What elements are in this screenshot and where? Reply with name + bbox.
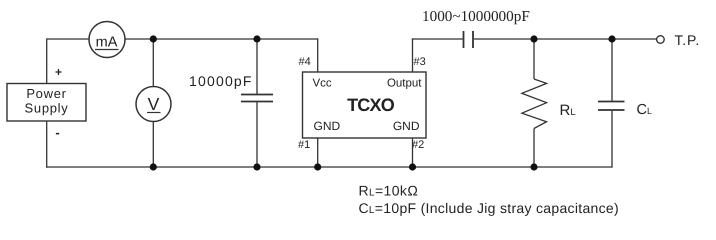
- junction dot top at CL: [608, 35, 615, 42]
- note RL value: [359, 183, 419, 199]
- voltmeter V: [136, 87, 171, 122]
- wire left vertical from top rail to power supply +: [46, 38, 48, 83]
- minus terminal label: [55, 125, 59, 140]
- pin label Output: [387, 78, 422, 90]
- wire top from power supply to ammeter: [47, 38, 89, 40]
- svg-text:Power: Power: [26, 86, 66, 101]
- svg-text:Vcc: Vcc: [313, 78, 332, 90]
- plus terminal label: [55, 65, 62, 79]
- pin number #1: [298, 139, 310, 151]
- wire TCXO pin 2: [412, 138, 414, 167]
- wire CL bottom: [611, 110, 613, 168]
- pin label GND left: [314, 119, 341, 133]
- wire RL top: [533, 39, 535, 79]
- wire voltmeter bottom: [152, 122, 154, 168]
- junction dot bottom at voltmeter: [150, 163, 157, 170]
- wire RL bottom: [533, 129, 535, 168]
- wire capacitor 10000pF bottom: [256, 102, 258, 168]
- svg-text:CL=10pF (Include Jig stray cap: CL=10pF (Include Jig stray capacitance): [359, 200, 619, 216]
- svg-text:V: V: [148, 94, 160, 114]
- wire pin3 to series capacitor: [412, 38, 463, 40]
- power supply box: [7, 84, 86, 122]
- wire series capacitor to test point: [474, 38, 657, 40]
- svg-text:#4: #4: [299, 56, 311, 68]
- svg-text:#1: #1: [298, 139, 310, 151]
- junction dot bottom at RL: [530, 163, 537, 170]
- svg-text:RL=10kΩ: RL=10kΩ: [359, 183, 419, 199]
- svg-text:-: -: [55, 125, 59, 140]
- ammeter mA: [89, 22, 125, 58]
- wire TCXO pin 1: [317, 138, 319, 167]
- wire bottom ground rail: [46, 166, 613, 168]
- wire CL top: [611, 39, 613, 102]
- pin label Vcc: [313, 78, 332, 90]
- wire capacitor 10000pF top: [256, 39, 258, 95]
- junction dot bottom at pin1: [314, 163, 321, 170]
- svg-text:mA: mA: [96, 35, 118, 51]
- junction dot top at RL: [530, 35, 537, 42]
- series capacitor 1000~1000000pF: [422, 8, 530, 48]
- svg-text:Output: Output: [387, 78, 422, 90]
- svg-text:1000~1000000pF: 1000~1000000pF: [422, 8, 530, 25]
- junction dot bottom at pin2: [409, 163, 416, 170]
- wire TCXO pin 3: [412, 38, 414, 72]
- wire TCXO pin 4: [317, 38, 319, 72]
- junction dot bottom at 10000pF: [253, 163, 260, 170]
- svg-text:Supply: Supply: [25, 101, 69, 116]
- wire power supply - to bottom rail: [46, 121, 48, 168]
- svg-text:GND: GND: [393, 119, 420, 133]
- wire top from ammeter to TCXO pin4 corner: [125, 38, 318, 40]
- pin label GND right: [393, 119, 420, 133]
- wire voltmeter top: [152, 39, 154, 87]
- svg-text:10000pF: 10000pF: [189, 73, 253, 89]
- junction dot top at 10000pF: [253, 35, 260, 42]
- svg-text:GND: GND: [314, 119, 341, 133]
- pin number #4: [299, 56, 311, 68]
- capacitor 10000pF: [189, 73, 273, 102]
- resistor RL: [522, 79, 576, 129]
- test point T.P.: [657, 32, 700, 48]
- junction dot top at voltmeter: [150, 35, 157, 42]
- svg-text:TCXO: TCXO: [347, 95, 395, 115]
- TCXO U1: [303, 72, 427, 138]
- svg-text:+: +: [55, 65, 62, 79]
- note CL value: [359, 200, 619, 216]
- pin number #3: [414, 56, 426, 68]
- svg-text:#2: #2: [412, 139, 424, 151]
- pin number #2: [412, 139, 424, 151]
- capacitor CL: [598, 102, 652, 119]
- svg-text:T.P.: T.P.: [675, 32, 701, 48]
- svg-text:#3: #3: [414, 56, 426, 68]
